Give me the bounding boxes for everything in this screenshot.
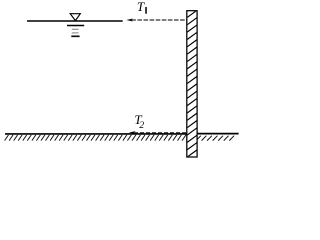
water symbol dash 1 <box>67 25 84 27</box>
ground hatching right <box>196 136 234 141</box>
water symbol dash 4 <box>71 35 79 37</box>
force arrow T2 head <box>129 131 136 134</box>
water symbol dash 2 <box>72 28 79 30</box>
ground line right <box>197 133 239 135</box>
force arrow T2 shaft (dashed) <box>134 132 187 134</box>
force arrow T1 head <box>126 19 133 22</box>
water surface line <box>27 20 123 22</box>
svg-text:2: 2 <box>139 121 144 131</box>
svg-text:T: T <box>137 0 145 14</box>
ground line left <box>5 133 187 135</box>
force arrow T1 shaft (dashed) <box>131 19 186 21</box>
retaining wall (hatched) <box>186 10 197 165</box>
water symbol dash 3 <box>72 32 79 34</box>
water level symbol triangle <box>70 14 80 21</box>
ground hatching left <box>5 135 186 141</box>
